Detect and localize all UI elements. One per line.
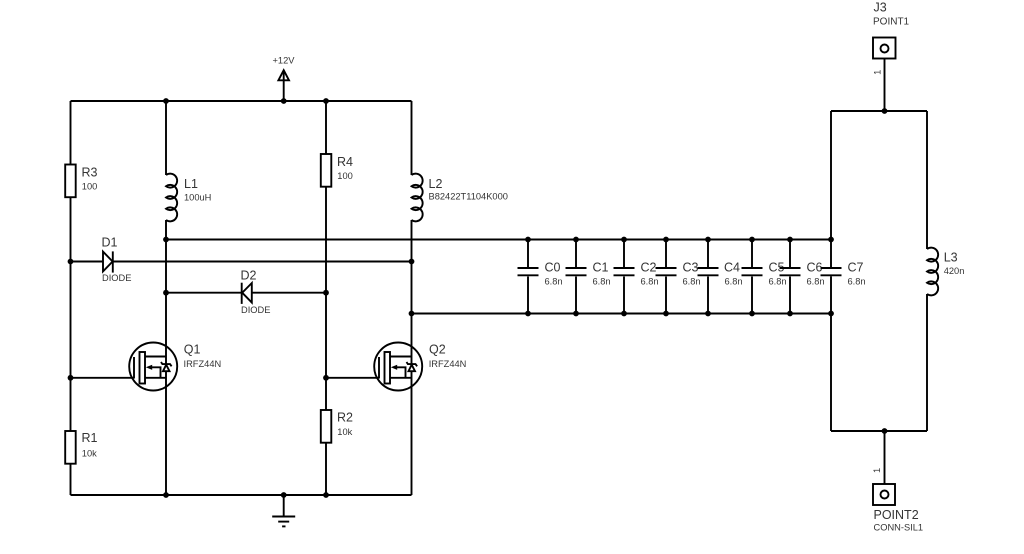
wire Q1 gate xyxy=(71,377,135,379)
svg-text:DIODE: DIODE xyxy=(102,273,131,283)
svg-text:R1: R1 xyxy=(82,431,98,445)
wire ground rail xyxy=(71,494,412,496)
svg-text:10k: 10k xyxy=(82,449,97,459)
wire loop bottom edge xyxy=(831,430,927,432)
wire J3 drop xyxy=(884,53,886,112)
svg-text:1: 1 xyxy=(872,468,882,473)
junction (326,495) xyxy=(323,492,329,498)
svg-text:L1: L1 xyxy=(184,177,198,191)
wire top rail +12V net xyxy=(71,100,412,102)
junction (166,292.7) xyxy=(163,290,169,296)
capacitor C4 6.8n xyxy=(698,240,743,314)
junction (752,239.5) xyxy=(749,237,755,243)
connector J3 POINT1 xyxy=(873,1,910,59)
svg-text:Q2: Q2 xyxy=(429,343,446,357)
svg-text:100: 100 xyxy=(82,182,98,192)
svg-text:6.8n: 6.8n xyxy=(641,277,659,287)
junction (624,239.5) xyxy=(621,237,627,243)
svg-text:10k: 10k xyxy=(337,427,352,437)
junction (166,101) xyxy=(163,98,169,104)
wire vertical x=411.5 upper xyxy=(411,101,413,175)
ground xyxy=(272,495,295,526)
junction (411.5,313.5) xyxy=(409,311,415,317)
svg-text:C3: C3 xyxy=(683,261,699,275)
junction (708,313.5) xyxy=(705,311,711,317)
power +12V xyxy=(273,56,296,102)
svg-text:POINT1: POINT1 xyxy=(873,17,910,28)
svg-text:420n: 420n xyxy=(944,266,965,276)
diode D2 xyxy=(241,269,271,316)
junction (790,239.5) xyxy=(787,237,793,243)
junction (884.5,111) xyxy=(882,108,888,114)
svg-text:C1: C1 xyxy=(593,261,609,275)
resistor R1 10k xyxy=(65,431,97,464)
svg-text:6.8n: 6.8n xyxy=(593,277,611,287)
svg-text:6.8n: 6.8n xyxy=(545,277,563,287)
wire capacitor top rail xyxy=(166,239,831,241)
junction (70.5,261.5) xyxy=(68,259,74,265)
pin 1 label J3 xyxy=(872,70,882,75)
wire Q2 gate xyxy=(326,377,379,379)
inductor L2 B82422T1104K000 xyxy=(412,174,508,222)
capacitor C5 6.8n xyxy=(742,240,787,314)
junction (528,239.5) xyxy=(525,237,531,243)
junction (326,377.8) xyxy=(323,375,329,381)
svg-text:C4: C4 xyxy=(724,261,740,275)
junction (790,313.5) xyxy=(787,311,793,317)
svg-text:6.8n: 6.8n xyxy=(683,277,701,287)
wire loop right edge upper xyxy=(926,111,928,249)
svg-text:Q1: Q1 xyxy=(184,343,201,357)
junction (752,313.5) xyxy=(749,311,755,317)
svg-text:C7: C7 xyxy=(848,261,864,275)
svg-text:6.8n: 6.8n xyxy=(725,277,743,287)
capacitor C0 6.8n xyxy=(518,240,563,314)
wire vertical x=326 xyxy=(325,101,327,495)
junction (666,239.5) xyxy=(663,237,669,243)
svg-text:IRFZ44N: IRFZ44N xyxy=(184,359,222,369)
svg-text:R4: R4 xyxy=(337,155,353,169)
capacitor C7 6.8n xyxy=(821,261,866,287)
wire loop left edge upper (to C7) xyxy=(830,111,832,267)
svg-text:L2: L2 xyxy=(429,177,443,191)
junction (831,313.5) xyxy=(828,311,834,317)
wire loop top edge xyxy=(831,110,927,112)
svg-text:B82422T1104K000: B82422T1104K000 xyxy=(429,192,508,202)
junction (576,239.5) xyxy=(573,237,579,243)
wire D1 row xyxy=(71,261,412,263)
wire vertical x=166 upper xyxy=(165,101,167,175)
resistor R4 100 xyxy=(321,154,353,187)
junction (326,101) xyxy=(323,98,329,104)
wire D2 row xyxy=(166,292,326,294)
svg-text:1: 1 xyxy=(872,70,882,75)
resistor R2 10k xyxy=(321,410,353,443)
svg-text:C0: C0 xyxy=(545,261,561,275)
svg-text:D1: D1 xyxy=(102,235,118,249)
wire POINT2 drop xyxy=(884,431,886,491)
capacitor C6 6.8n xyxy=(780,240,825,314)
capacitor C2 6.8n xyxy=(614,240,659,314)
svg-text:6.8n: 6.8n xyxy=(848,277,866,287)
svg-text:IRFZ44N: IRFZ44N xyxy=(429,359,467,369)
wire loop right edge lower xyxy=(926,294,928,431)
svg-text:R3: R3 xyxy=(82,165,98,179)
svg-text:C2: C2 xyxy=(641,261,657,275)
connector POINT2 CONN-SIL1 xyxy=(873,484,923,533)
svg-text:D2: D2 xyxy=(241,269,257,283)
wire capacitor bottom rail xyxy=(412,313,832,315)
svg-text:6.8n: 6.8n xyxy=(769,277,787,287)
svg-text:C6: C6 xyxy=(807,261,823,275)
resistor R3 100 xyxy=(65,165,97,198)
svg-text:100: 100 xyxy=(337,171,353,181)
wire left vertical x=70.5 xyxy=(70,101,72,495)
junction (166,239.5) xyxy=(163,237,169,243)
junction (624,313.5) xyxy=(621,311,627,317)
junction (884.5,431) xyxy=(882,428,888,434)
inductor L3 420n xyxy=(927,248,964,296)
transistor Q1 IRFZ44N xyxy=(129,343,221,391)
junction (70.5,377.8) xyxy=(68,375,74,381)
junction (708,239.5) xyxy=(705,237,711,243)
capacitor C3 6.8n xyxy=(656,240,701,314)
pin 1 label POINT2 xyxy=(872,468,882,473)
svg-text:100uH: 100uH xyxy=(184,193,211,203)
svg-text:CONN-SIL1: CONN-SIL1 xyxy=(874,523,924,533)
junction (831,239.5) xyxy=(828,237,834,243)
svg-text:+12V: +12V xyxy=(273,56,296,66)
junction (283.7,101) xyxy=(281,98,287,104)
junction (326,292.7) xyxy=(323,290,329,296)
svg-text:R2: R2 xyxy=(337,411,353,425)
diode D1 xyxy=(102,235,132,283)
junction (411.5,261.5) xyxy=(409,259,415,265)
wire vertical x=166 lower xyxy=(165,220,167,495)
inductor L1 100uH xyxy=(166,174,211,222)
svg-text:POINT2: POINT2 xyxy=(874,508,919,522)
junction (576,313.5) xyxy=(573,311,579,317)
junction (528,313.5) xyxy=(525,311,531,317)
junction (283.7,495) xyxy=(281,492,287,498)
svg-text:6.8n: 6.8n xyxy=(807,277,825,287)
junction (166,495) xyxy=(163,492,169,498)
svg-text:J3: J3 xyxy=(874,1,887,15)
capacitor C1 6.8n xyxy=(566,240,611,314)
junction (666,313.5) xyxy=(663,311,669,317)
wire vertical x=411.5 lower xyxy=(411,220,413,495)
wire loop left edge lower (from C7) xyxy=(830,276,832,431)
svg-text:DIODE: DIODE xyxy=(241,305,270,315)
transistor Q2 IRFZ44N xyxy=(374,343,466,391)
svg-text:L3: L3 xyxy=(944,250,958,264)
